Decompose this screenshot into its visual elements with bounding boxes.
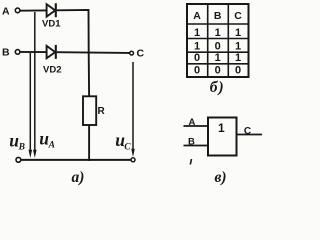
svg-text:1: 1 (218, 121, 225, 135)
truth table row 1 values 1 1 1 (194, 27, 241, 39)
svg-text:0: 0 (215, 40, 221, 52)
output terminal C (130, 48, 145, 60)
svg-text:A: A (193, 10, 201, 22)
truth table row 3 values 0 1 1 (194, 52, 241, 64)
svg-text:1: 1 (194, 27, 200, 39)
wire from VD2 cathode to output terminal C (57, 51, 130, 54)
truth table row line 3 (187, 51, 249, 53)
svg-text:VD1: VD1 (42, 18, 61, 29)
svg-text:C: C (124, 143, 131, 153)
svg-text:A: A (2, 6, 10, 18)
svg-text:0: 0 (194, 65, 200, 77)
svg-text:): ) (217, 79, 224, 96)
truth table row line 2 (187, 38, 249, 40)
svg-text:1: 1 (215, 27, 221, 39)
svg-text:A: A (48, 141, 55, 151)
stray mark under gate input B (190, 159, 191, 165)
voltage arrow uB (9, 53, 32, 158)
svg-text:B: B (214, 10, 222, 22)
svg-text:1: 1 (235, 40, 241, 52)
bottom-right terminal (131, 158, 135, 162)
svg-text:в): в) (215, 169, 227, 186)
truth table row line 4 (187, 63, 249, 65)
svg-text:0: 0 (194, 52, 200, 64)
svg-text:C: C (244, 126, 251, 137)
truth table column line 1 (207, 4, 209, 77)
svg-text:C: C (234, 10, 242, 22)
svg-text:B: B (188, 137, 195, 148)
svg-text:B: B (2, 47, 10, 59)
svg-text:R: R (98, 106, 106, 117)
svg-text:1: 1 (215, 52, 221, 64)
svg-text:1: 1 (235, 27, 241, 39)
truth table row 2 values 1 0 1 (194, 40, 241, 52)
gate input line A (184, 117, 209, 128)
svg-text:0: 0 (235, 65, 241, 77)
input terminal A (2, 6, 20, 18)
svg-text:б: б (210, 79, 219, 96)
resistor R (83, 96, 106, 125)
wire from B to diode VD2 (20, 51, 46, 53)
bottom-left terminal (16, 157, 21, 162)
svg-text:0: 0 (215, 65, 221, 77)
wire from node down to resistor (88, 53, 90, 97)
svg-text:VD2: VD2 (43, 64, 61, 75)
diode VD1 (42, 3, 61, 29)
truth table frame (187, 4, 249, 77)
wire from A to diode VD1 (20, 9, 46, 11)
diode VD2 (43, 45, 61, 75)
svg-text:C: C (137, 48, 145, 60)
wire from resistor to bottom rail (88, 125, 90, 161)
voltage arrow uA (33, 12, 55, 158)
wire from VD1 cathode to corner node (57, 10, 89, 53)
svg-text:B: B (18, 143, 25, 153)
gate input line B (184, 137, 209, 148)
truth table row line 1 (187, 23, 249, 25)
truth table header A B C (193, 10, 242, 22)
svg-text:а): а) (72, 169, 85, 186)
truth table column line 2 (227, 4, 229, 77)
input terminal B (2, 47, 20, 59)
logic gate U1 (OR, IEC "1") box (208, 118, 237, 156)
svg-text:1: 1 (194, 40, 200, 52)
bottom rail (21, 159, 132, 161)
gate output line C (237, 126, 263, 137)
svg-text:1: 1 (235, 52, 241, 64)
svg-text:A: A (189, 117, 196, 128)
truth table row 4 values 0 0 0 (194, 65, 241, 77)
voltage arrow uC (115, 62, 135, 157)
